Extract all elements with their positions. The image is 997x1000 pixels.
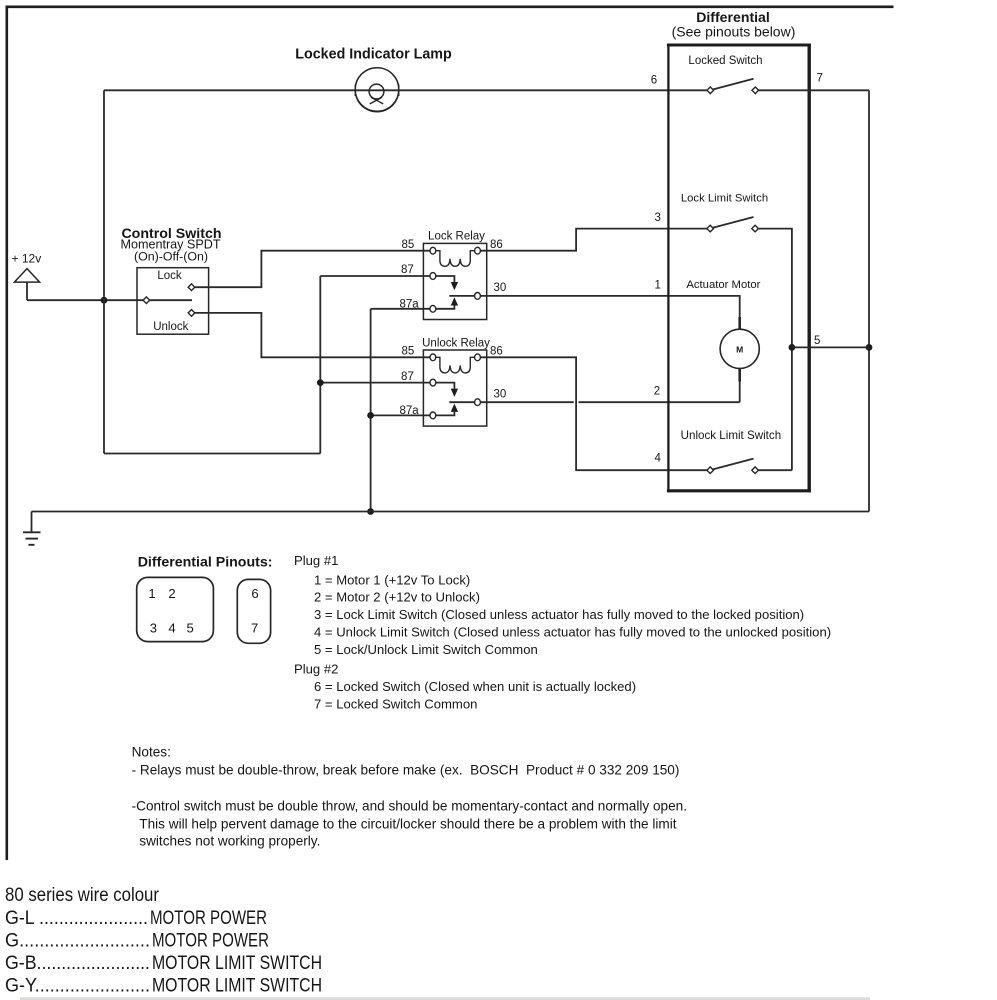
svg-text:80 series wire colour: 80 series wire colour [5,885,160,906]
wire unlock relay 87 horizontal [320,382,430,384]
wire pin 5 out [792,346,869,348]
node junction +12v rail [101,297,108,304]
wire control unlock to unlock relay 85 [195,313,430,357]
wire pin 7 out [759,89,869,91]
svg-text:Locked Switch: Locked Switch [688,55,762,67]
svg-text:- Relays must be double-throw,: - Relays must be double-throw, break bef… [132,763,680,778]
svg-text:Unlock Limit Switch: Unlock Limit Switch [681,429,782,442]
svg-text:Lock: Lock [157,270,182,282]
plug 2 connector outline [237,579,270,643]
svg-text:switches not working properly.: switches not working properly. [139,834,320,849]
notes block [132,745,687,849]
svg-text:30: 30 [494,282,507,294]
wire bottom return horizontal [104,453,320,455]
svg-text:(See pinouts below): (See pinouts below) [672,24,796,40]
svg-text:30: 30 [494,389,507,401]
svg-text:Actuator Motor: Actuator Motor [686,279,760,291]
svg-text:Unlock Relay: Unlock Relay [422,337,490,349]
page border top [6,6,894,9]
svg-text:1: 1 [655,280,661,292]
svg-text:Unlock: Unlock [153,321,188,333]
svg-text:4: 4 [168,621,175,636]
svg-text:7: 7 [251,621,258,636]
node junction pin5 right rail [866,344,873,351]
plug 1 connector outline [137,577,214,641]
svg-text:87a: 87a [400,405,420,417]
wire unlock relay 30 to pin 2 motor [480,401,573,403]
svg-text:87: 87 [401,264,414,276]
svg-text:87: 87 [401,371,414,383]
svg-text:Differential Pinouts:: Differential Pinouts: [138,555,273,571]
svg-text:+ 12v: + 12v [12,252,42,266]
motor M1 Actuator Motor [686,279,760,382]
svg-text:3: 3 [655,212,661,224]
wire lock relay 30 to pin 1 motor [480,296,739,317]
svg-text:5: 5 [187,621,194,636]
wire 87 rail vertical [319,276,321,454]
wire right rail vertical [868,90,870,511]
svg-text:MOTOR LIMIT SWITCH: MOTOR LIMIT SWITCH [152,953,322,974]
svg-text:86: 86 [490,239,503,251]
wire lamp line horizontal [104,89,707,91]
wire unlock relay 87a horizontal [371,414,430,416]
svg-text:Notes:: Notes: [132,745,171,760]
relay K1 Lock Relay [400,231,507,320]
lamp L1 Locked Indicator Lamp [295,47,452,112]
node junction limit common [789,344,796,351]
svg-text:2: 2 [168,586,175,601]
unlock limit switch inside differential [681,429,782,473]
page border left [6,6,9,861]
svg-text:-Control switch must be double: -Control switch must be double throw, an… [132,799,687,814]
node junction ground rail [367,508,374,515]
differential box [667,9,811,493]
svg-text:85: 85 [402,239,415,251]
+12v supply triangle [12,252,42,283]
svg-text:7: 7 [817,73,823,85]
svg-text:5 = Lock/Unlock Limit Switch C: 5 = Lock/Unlock Limit Switch Common [314,642,538,657]
svg-text:Differential: Differential [696,9,770,25]
wire ground rail horizontal [32,511,870,513]
wire lock relay 87 horizontal [320,275,430,277]
svg-text:1 = Motor 1 (+12v To Lock): 1 = Motor 1 (+12v To Lock) [314,572,470,587]
svg-text:87a: 87a [400,299,420,311]
svg-text:5: 5 [814,335,820,347]
svg-text:Lock Limit Switch: Lock Limit Switch [681,192,768,204]
svg-text:G-L ......................: G-L ...................... [5,908,148,929]
lock limit switch inside differential [681,192,768,232]
svg-text:G-B.......................: G-B....................... [5,953,150,974]
svg-text:86: 86 [490,345,503,357]
wire left rail vertical [103,90,105,453]
svg-text:(On)-Off-(On): (On)-Off-(On) [134,250,208,264]
svg-text:6: 6 [651,75,657,87]
wire lock relay 87a horizontal [371,308,430,310]
svg-text:4: 4 [655,453,662,465]
svg-text:85: 85 [402,345,415,357]
svg-text:Plug #1: Plug #1 [294,553,338,568]
svg-text:2 = Motor 2 (+12v to Unlock): 2 = Motor 2 (+12v to Unlock) [314,590,480,605]
svg-text:G-Y.......................: G-Y....................... [5,976,150,997]
svg-text:3 = Lock Limit Switch (Closed: 3 = Lock Limit Switch (Closed unless act… [314,607,804,622]
svg-text:MOTOR POWER: MOTOR POWER [150,908,267,929]
node junction 87 rail [317,379,324,386]
svg-text:1: 1 [148,586,155,601]
wire lock limit to common rail [758,229,792,471]
control switch S1 [120,226,221,334]
svg-text:2: 2 [654,385,660,397]
locked switch inside differential [688,55,762,94]
pinout list plug 2 [294,662,636,712]
svg-text:M: M [736,344,743,354]
svg-text:Plug #2: Plug #2 [294,662,338,677]
pinout list plug 1 [294,553,831,657]
svg-text:4 = Unlock Limit Switch (Close: 4 = Unlock Limit Switch (Closed unless a… [314,625,831,640]
svg-text:Locked Indicator Lamp: Locked Indicator Lamp [295,47,452,63]
svg-text:Lock Relay: Lock Relay [428,231,485,243]
wire unlock limit to common rail [758,469,792,471]
svg-text:7 = Locked Switch Common: 7 = Locked Switch Common [314,696,477,711]
wire pin 2 motor segment [579,382,740,403]
wire +12v to control switch [27,299,143,301]
svg-text:6 = Locked Switch (Closed when: 6 = Locked Switch (Closed when unit is a… [314,679,636,694]
svg-text:G..........................: G.......................... [5,931,150,952]
svg-text:MOTOR LIMIT SWITCH: MOTOR LIMIT SWITCH [152,976,322,997]
wire 87a rail vertical [370,309,372,512]
svg-text:This will help pervent damage: This will help pervent damage to the cir… [139,817,676,832]
wire colour legend [5,885,322,997]
svg-text:6: 6 [251,586,258,601]
wire unlock relay 86 to pin 4 [480,357,707,470]
wire lock relay 86 to pin 3 [480,229,707,251]
wire +12v stem [26,282,28,300]
relay K2 Unlock Relay [400,337,507,426]
node junction 87a rail [367,412,374,419]
svg-text:MOTOR POWER: MOTOR POWER [152,931,269,952]
ground symbol [23,512,41,545]
wire control lock to lock relay 85 [195,251,430,288]
cut-off next legend line [20,997,870,1000]
svg-text:3: 3 [150,621,157,636]
